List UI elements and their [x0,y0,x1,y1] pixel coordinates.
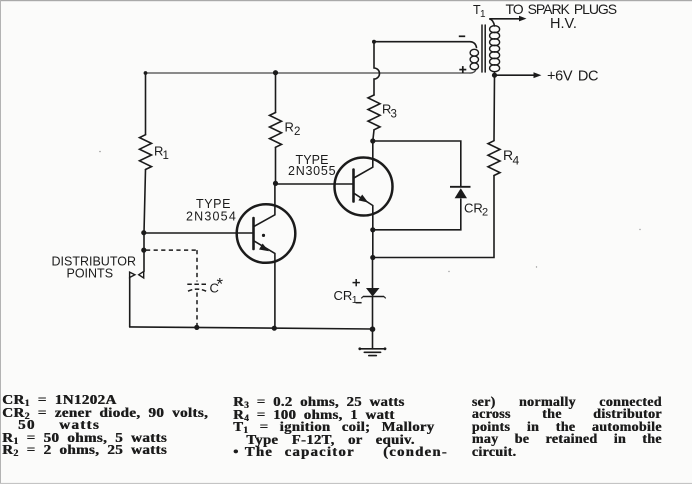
svg-text:*: * [217,275,224,294]
svg-text:3: 3 [391,108,397,120]
svg-text:R: R [285,120,294,135]
svg-text:2: 2 [482,207,488,219]
svg-text:2N3055: 2N3055 [288,164,336,178]
svg-text:4: 4 [513,154,520,168]
svg-text:TO SPARK PLUGS: TO SPARK PLUGS [506,1,617,17]
svg-text:+6V DC: +6V DC [547,69,598,85]
svg-text:2: 2 [294,126,300,138]
svg-text:H.V.: H.V. [550,16,577,32]
svg-text:CR: CR [464,201,483,216]
svg-text:CR: CR [334,288,353,303]
svg-text:2N3054: 2N3054 [186,210,237,224]
svg-text:1: 1 [163,150,169,162]
svg-text:POINTS: POINTS [67,267,114,281]
svg-text:1: 1 [480,9,486,20]
svg-text:1: 1 [352,294,358,306]
